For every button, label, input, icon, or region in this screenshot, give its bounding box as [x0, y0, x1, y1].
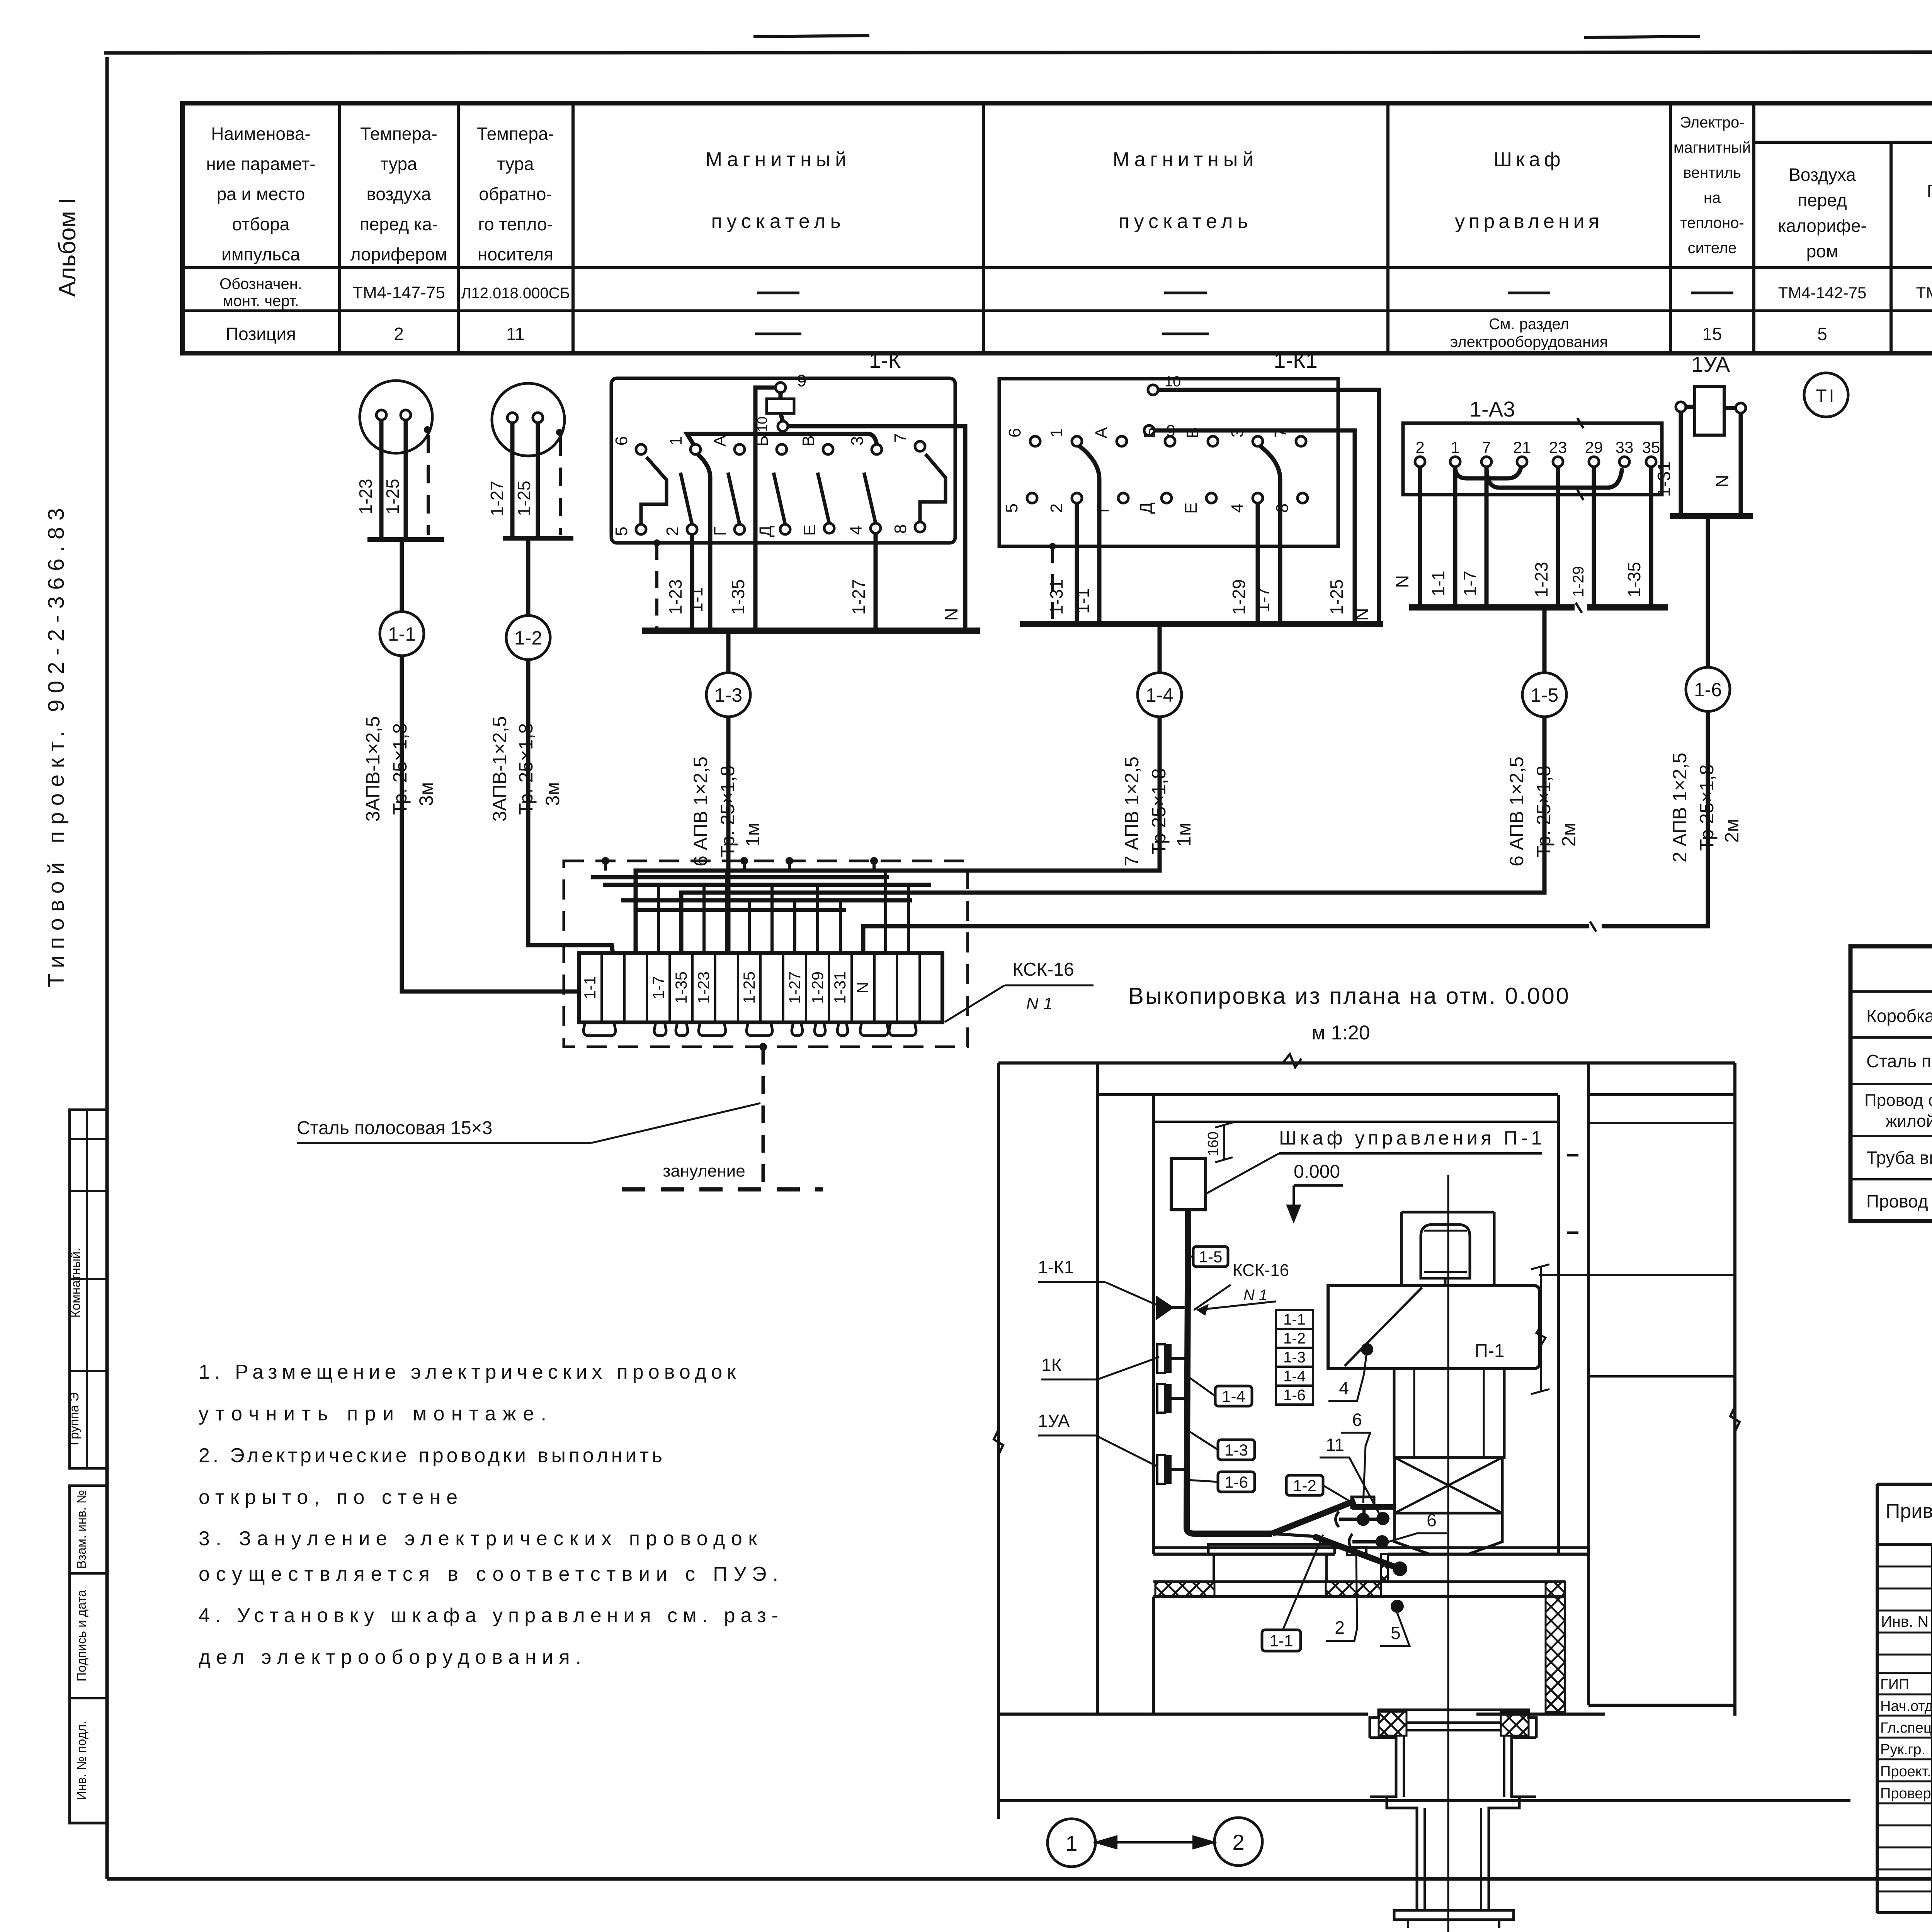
- svg-text:Темпера-: Темпера-: [360, 124, 437, 144]
- svg-text:Инв. № подл.: Инв. № подл.: [74, 1721, 88, 1800]
- lower valve: [1349, 1534, 1389, 1549]
- svg-text:электрооборудования: электрооборудования: [1450, 333, 1608, 350]
- svg-text:4: 4: [1339, 1378, 1349, 1398]
- svg-text:1-К1: 1-К1: [1274, 348, 1318, 372]
- jumper 1-21: [1455, 467, 1521, 478]
- wire terminal 10 to N drop: [788, 426, 965, 631]
- svg-text:Г: Г: [711, 527, 730, 536]
- svg-text:1-2: 1-2: [514, 627, 542, 649]
- terminals 7/8 of 1-К1: [1271, 428, 1308, 513]
- svg-text:Подпись и дата: Подпись и дата: [74, 1590, 88, 1682]
- svg-text:3: 3: [848, 436, 867, 446]
- fixture third (plan): [1157, 1344, 1187, 1373]
- svg-text:Тр. 25×1,8: Тр. 25×1,8: [1533, 765, 1554, 857]
- wire bundle drops: [613, 871, 908, 953]
- axis dimension arrows: [1095, 1836, 1214, 1849]
- svg-text:1-5: 1-5: [1531, 684, 1558, 706]
- leader from 4 to unit: [1364, 1349, 1367, 1374]
- svg-text:калорифе-: калорифе-: [1778, 216, 1867, 236]
- wire 1-25 label (sensor B2): [514, 481, 534, 516]
- contact 6-5 of 1-К: [612, 436, 667, 536]
- svg-text:3: 3: [1228, 428, 1247, 437]
- terminal 29 of 1-А3: [1585, 438, 1603, 467]
- cable 1-5 run: [681, 717, 1544, 953]
- svg-text:1-1: 1-1: [1283, 1311, 1306, 1328]
- svg-text:9: 9: [797, 371, 806, 390]
- wire bus to node 1-4: [1158, 624, 1162, 673]
- wire bundle horizontal runs: [402, 871, 1160, 992]
- svg-text:1: 1: [1065, 1831, 1077, 1855]
- svg-text:1: 1: [1451, 438, 1459, 456]
- svg-text:Альбом Ι: Альбом Ι: [54, 198, 81, 297]
- svg-text:N 1: N 1: [1026, 994, 1053, 1013]
- wire terminal 1 drop of 1-К1: [1079, 446, 1099, 624]
- terminal 1 of 1-А3: [1450, 438, 1460, 467]
- leader 1-5: [1187, 1256, 1193, 1258]
- svg-text:1-25: 1-25: [383, 479, 403, 514]
- axis marker 1: [1048, 1819, 1095, 1867]
- unit dimension bracket: [1531, 1264, 1549, 1394]
- leader 1-3: [1187, 1430, 1218, 1450]
- svg-text:1-1: 1-1: [1073, 588, 1093, 614]
- node 1-4: [1138, 673, 1182, 717]
- svg-text:ТМ4-143-75: ТМ4-143-75: [1916, 284, 1932, 302]
- svg-text:N: N: [941, 608, 961, 621]
- wire to node 1-2: [526, 538, 531, 616]
- sensor B2 (temperature bulb): [492, 383, 573, 538]
- wire 1-31 of 1УА: [1654, 412, 1681, 516]
- svg-text:2: 2: [1047, 503, 1066, 513]
- cable 1-1 run: [402, 656, 580, 992]
- svg-text:1-29: 1-29: [1229, 579, 1249, 615]
- svg-text:15: 15: [1702, 324, 1722, 344]
- svg-text:3. Зануление электрически: 3. Зануление электрических проводок: [199, 1527, 757, 1550]
- svg-text:носителя: носителя: [478, 244, 553, 264]
- marker box stack 1-1..1-6: [1276, 1310, 1313, 1405]
- wire bus to node 1-6: [1706, 516, 1710, 667]
- parameter table: [182, 103, 1932, 353]
- position flag 5: [1380, 1613, 1410, 1646]
- cable 1-4 run: [636, 717, 1160, 953]
- terminal 23 of 1-А3: [1549, 438, 1567, 467]
- svg-text:1-7: 1-7: [1253, 587, 1273, 612]
- svg-text:1-5: 1-5: [1199, 1248, 1223, 1266]
- jumper 7-33: [1486, 467, 1622, 488]
- svg-text:1-29: 1-29: [1570, 566, 1587, 597]
- terminal 2 of 1-А3: [1415, 438, 1425, 467]
- svg-text:2: 2: [1415, 438, 1424, 456]
- svg-text:тура: тура: [380, 154, 417, 174]
- plan hatching: [1155, 1554, 1565, 1712]
- marker box 1-6: [1218, 1472, 1255, 1492]
- svg-text:33: 33: [1616, 438, 1634, 456]
- svg-text:Тр 25×1,8: Тр 25×1,8: [1148, 768, 1170, 855]
- terminal 7 of 1-А3: [1481, 438, 1492, 467]
- drop labels of 1-А3: [1392, 562, 1644, 597]
- svg-text:Тр. 25×1,8: Тр. 25×1,8: [515, 723, 537, 815]
- svg-text:теплоно-: теплоно-: [1680, 214, 1744, 231]
- cable tray run: [1187, 1210, 1400, 1569]
- svg-text:ние парамет-: ние парамет-: [206, 154, 315, 174]
- wire terminal 9 to 1-25 drop: [1154, 430, 1355, 624]
- svg-text:Наименова-: Наименова-: [211, 124, 311, 144]
- svg-text:Проект.: Проект.: [1880, 1764, 1931, 1780]
- svg-text:1УА: 1УА: [1038, 1411, 1070, 1431]
- svg-text:ТМ4-147-75: ТМ4-147-75: [352, 283, 445, 302]
- level mark 0.000: [1287, 1162, 1343, 1221]
- svg-text:Комнатный.: Комнатный.: [68, 1248, 83, 1318]
- svg-text:11: 11: [506, 324, 525, 344]
- svg-text:Шкаф: Шкаф: [1493, 148, 1564, 171]
- svg-text:1-35: 1-35: [728, 579, 748, 615]
- svg-text:го тепло-: го тепло-: [478, 214, 553, 234]
- unit funnel: [1395, 1513, 1502, 1554]
- wire 1-23 label: [355, 479, 376, 514]
- bundle junction dots: [602, 857, 878, 871]
- unit П-1 body: [1328, 1286, 1540, 1369]
- terminals 1/2 of 1-К1: [1047, 428, 1082, 513]
- svg-text:2м: 2м: [1558, 823, 1580, 847]
- svg-text:29: 29: [1585, 438, 1603, 456]
- drop labels of 1-К: [665, 579, 961, 621]
- svg-text:2: 2: [663, 527, 682, 536]
- cable bus of 1-А3: [1409, 603, 1668, 613]
- svg-text:Б: Б: [1140, 427, 1159, 439]
- svg-text:1-6: 1-6: [1694, 679, 1722, 701]
- fan motor: [1421, 1175, 1470, 1278]
- cable 1-6 run: [863, 711, 1708, 953]
- cable 1-2 label: [489, 716, 563, 821]
- svg-text:пускатель: пускатель: [1118, 210, 1252, 233]
- terminals Б/Д of 1-К1: [1137, 427, 1175, 514]
- position flag 4: [1328, 1374, 1364, 1401]
- svg-text:11: 11: [1326, 1435, 1344, 1455]
- svg-text:1м: 1м: [742, 823, 764, 847]
- svg-text:N: N: [854, 982, 872, 993]
- svg-text:Провод с алюминиевой: Провод с алюминиевой: [1864, 1091, 1932, 1110]
- contact 3-4 of 1-К: [847, 436, 882, 535]
- svg-text:160: 160: [1205, 1131, 1221, 1156]
- svg-text:1-2: 1-2: [1283, 1330, 1306, 1347]
- title block attachment table: [1877, 1484, 1932, 1913]
- terminals 3/4 of 1-К1: [1228, 428, 1263, 513]
- valve sensor pocket 1-2: [1352, 1497, 1396, 1510]
- svg-text:Сталь полосовая: Сталь полосовая: [1866, 1051, 1932, 1071]
- svg-text:монт. черт.: монт. черт.: [223, 293, 299, 310]
- svg-text:6: 6: [1005, 428, 1024, 437]
- svg-text:импульса: импульса: [221, 244, 300, 264]
- svg-text:1УА: 1УА: [1691, 352, 1730, 376]
- terminals В/Е of 1-К1: [1182, 427, 1218, 514]
- svg-text:тура: тура: [497, 154, 534, 174]
- svg-text:магнитный: магнитный: [1673, 139, 1751, 156]
- svg-text:1-23: 1-23: [1531, 562, 1551, 597]
- contact 1-2 of 1-К: [663, 436, 701, 536]
- svg-text:П-1: П-1: [1475, 1341, 1504, 1361]
- svg-text:Гл.спец.: Гл.спец.: [1880, 1720, 1932, 1736]
- svg-text:Провод стальной ф 5мм: Провод стальной ф 5мм: [1866, 1191, 1932, 1211]
- fixture 1УА (plan): [1157, 1455, 1187, 1484]
- wire terminal 1 drop 1-1: [698, 454, 710, 631]
- svg-text:Воздуха: Воздуха: [1789, 165, 1856, 185]
- svg-text:обратно-: обратно-: [479, 184, 552, 204]
- leader 1-1 (plan): [1283, 1535, 1323, 1630]
- leader 1-6: [1187, 1480, 1218, 1482]
- svg-text:Взам. инв. №: Взам. инв. №: [74, 1490, 88, 1569]
- wire 1-29 drop of 1-А3: [1592, 467, 1596, 607]
- svg-text:уточнить при монтаже.: уточнить при монтаже.: [199, 1403, 546, 1425]
- svg-text:ТМ4-142-75: ТМ4-142-75: [1778, 284, 1867, 302]
- wire bus to node 1-5: [1543, 607, 1547, 673]
- svg-text:1: 1: [667, 436, 685, 446]
- svg-text:1-29: 1-29: [808, 971, 827, 1004]
- svg-text:3м: 3м: [542, 782, 563, 806]
- svg-text:Е: Е: [800, 524, 819, 536]
- svg-text:перед ка-: перед ка-: [360, 214, 438, 234]
- svg-text:А: А: [711, 435, 730, 447]
- terminals А/Г of 1-К1: [1092, 427, 1128, 513]
- svg-text:1-1: 1-1: [686, 587, 706, 612]
- node 1-6: [1686, 667, 1730, 711]
- contactor 1-К body: [611, 378, 955, 543]
- wire terminal 4 drop 1-27: [874, 533, 878, 631]
- svg-text:вентиль: вентиль: [1683, 164, 1741, 181]
- svg-text:7: 7: [1271, 428, 1290, 437]
- leader to cable 1-1..1-6 stack: [1198, 1301, 1276, 1315]
- svg-text:зануление: зануление: [663, 1162, 745, 1180]
- svg-text:1-6: 1-6: [1225, 1473, 1248, 1491]
- node 1-5: [1522, 673, 1566, 717]
- wire terminal 9 to 1-35 drop: [755, 388, 776, 631]
- svg-text:1-31: 1-31: [1654, 461, 1674, 497]
- svg-text:1-23: 1-23: [665, 579, 685, 615]
- svg-text:8: 8: [891, 524, 910, 534]
- cable 1-2 run: [528, 660, 613, 953]
- svg-text:А: А: [1092, 427, 1111, 439]
- svg-text:1-23: 1-23: [355, 479, 376, 514]
- svg-text:1-23: 1-23: [694, 971, 713, 1004]
- wire 1-27 label: [487, 481, 507, 516]
- svg-text:отбора: отбора: [232, 214, 290, 234]
- svg-text:Рук.гр.: Рук.гр.: [1880, 1742, 1925, 1758]
- svg-text:0.000: 0.000: [1294, 1162, 1340, 1182]
- terminal box 1-А3 body: [1403, 418, 1662, 500]
- drop labels of 1-К1: [1046, 579, 1372, 621]
- cable bus of 1-К: [642, 628, 980, 634]
- terminal 10 of 1-К1: [1148, 374, 1181, 395]
- svg-text:1м: 1м: [1173, 823, 1195, 847]
- wire N of 1УА: [1712, 413, 1741, 516]
- wire 1-1 drop of 1-А3: [1453, 467, 1458, 607]
- wire 1-25 label (sensor B1): [383, 479, 403, 514]
- svg-text:на: на: [1704, 189, 1721, 206]
- svg-text:6: 6: [612, 436, 631, 446]
- dimension 160: [1205, 1122, 1233, 1162]
- wire terminal 10 to N drop: [1158, 390, 1379, 624]
- svg-text:1-1: 1-1: [581, 976, 599, 1000]
- position flag 6 lower: [1389, 1510, 1447, 1542]
- svg-text:1: 1: [1047, 428, 1066, 437]
- svg-text:Тр. 25×1,8: Тр. 25×1,8: [717, 765, 738, 857]
- svg-text:Темпера-: Темпера-: [477, 124, 554, 144]
- callout КСК-16 N1 (plan): [1194, 1261, 1289, 1310]
- leader 1-2: [1323, 1485, 1352, 1502]
- materials table: [1850, 946, 1932, 1221]
- contactor 1-К1 body: [999, 379, 1338, 546]
- svg-text:1-7: 1-7: [1460, 571, 1480, 596]
- cable 1-3 label: [690, 757, 764, 866]
- label зануление: [663, 1162, 745, 1180]
- svg-text:Привязан:: Привязан:: [1886, 1500, 1932, 1522]
- svg-text:N 1: N 1: [1243, 1287, 1267, 1304]
- svg-text:6 АПВ 1×2,5: 6 АПВ 1×2,5: [1506, 757, 1527, 866]
- svg-text:открыто, по стене: открыто, по стене: [199, 1486, 457, 1509]
- node 1-1: [380, 612, 424, 656]
- svg-text:1-25: 1-25: [740, 971, 758, 1004]
- svg-text:35: 35: [1642, 438, 1660, 456]
- floor slab: [1208, 1544, 1335, 1582]
- svg-text:7: 7: [891, 433, 910, 442]
- КСК-16 callout: [945, 959, 1094, 1022]
- svg-text:Е: Е: [1182, 502, 1201, 514]
- svg-text:ТΙ: ТΙ: [1816, 386, 1837, 406]
- svg-text:6: 6: [1352, 1410, 1362, 1430]
- svg-text:КСК-16: КСК-16: [1233, 1261, 1289, 1280]
- terminal 9 of 1-К1: [1144, 422, 1175, 440]
- terminal 35 of 1-А3: [1642, 438, 1660, 467]
- position flag 6 upper: [1341, 1410, 1370, 1503]
- svg-text:Д: Д: [1137, 502, 1156, 514]
- cable 1-6 label: [1669, 753, 1743, 862]
- svg-text:1-25: 1-25: [514, 481, 534, 516]
- svg-text:21: 21: [1513, 438, 1531, 456]
- svg-text:1-35: 1-35: [1624, 562, 1644, 597]
- svg-text:1-27: 1-27: [786, 971, 804, 1004]
- svg-text:1-7: 1-7: [649, 976, 667, 1000]
- motor frame: [1401, 1212, 1494, 1286]
- svg-text:1-1: 1-1: [1270, 1632, 1293, 1650]
- marker box 1-4: [1215, 1386, 1252, 1406]
- cable 1-3 run: [726, 717, 731, 953]
- wire terminal 1 to bus (link to contact 3): [687, 434, 877, 445]
- node 1-2: [506, 616, 550, 660]
- svg-text:Магнитный: Магнитный: [1113, 148, 1259, 171]
- svg-text:Сталь полосовая 15×3: Сталь полосовая 15×3: [297, 1118, 492, 1138]
- notes text: [199, 1361, 778, 1668]
- marker box 1-3: [1218, 1440, 1255, 1460]
- svg-text:3АПВ-1×2,5: 3АПВ-1×2,5: [489, 716, 510, 821]
- svg-text:1-31: 1-31: [1046, 579, 1066, 615]
- svg-text:перед: перед: [1798, 190, 1847, 210]
- cable 1-4 label: [1121, 757, 1195, 866]
- marker box 1-1: [1262, 1630, 1301, 1651]
- wire N drop of 1-А3: [1418, 467, 1422, 607]
- svg-text:Группа Э: Группа Э: [67, 1392, 81, 1445]
- label сталь полосовая: [297, 1103, 760, 1143]
- svg-text:ром: ром: [1806, 241, 1838, 261]
- svg-text:1-2: 1-2: [1293, 1476, 1316, 1495]
- svg-text:5: 5: [1817, 324, 1827, 344]
- junction box КСК-16 body: [579, 953, 942, 1022]
- svg-text:м 1:20: м 1:20: [1311, 1022, 1370, 1044]
- svg-text:5: 5: [612, 527, 631, 536]
- wire terminal 4 drop of 1-К1: [1256, 503, 1260, 624]
- wire to node 1-1: [400, 539, 404, 612]
- contactor 1-К label: [869, 348, 901, 372]
- svg-text:1-А3: 1-А3: [1469, 397, 1515, 421]
- grounding conductor: [759, 1043, 767, 1188]
- terminal 33 of 1-А3: [1616, 438, 1634, 467]
- instrument TI-1: [1804, 373, 1848, 417]
- wire terminal 2 drop 1-23: [690, 534, 694, 631]
- leader 1-4: [1187, 1376, 1215, 1396]
- unit pedestal: [1394, 1369, 1504, 1458]
- contactor 1-К1 label: [1274, 348, 1318, 372]
- svg-text:2: 2: [1232, 1830, 1244, 1854]
- position flag 11: [1320, 1435, 1382, 1519]
- svg-text:1-25: 1-25: [1327, 579, 1347, 615]
- dot 5: [1391, 1600, 1404, 1613]
- wire 1-7 drop of 1-А3: [1485, 467, 1489, 607]
- relay coil of 1-К (terminals 9,10): [754, 371, 806, 432]
- svg-text:ГИП: ГИП: [1880, 1677, 1909, 1693]
- solenoid valve 1УА label: [1691, 352, 1730, 376]
- svg-text:5: 5: [1002, 503, 1021, 513]
- wire bus to node 1-3: [726, 631, 731, 673]
- end dot of cable: [1393, 1561, 1407, 1576]
- svg-text:N: N: [1352, 608, 1372, 621]
- svg-text:Позиция: Позиция: [226, 324, 296, 344]
- svg-text:1-4: 1-4: [1146, 684, 1173, 706]
- svg-text:2 АПВ 1×2,5: 2 АПВ 1×2,5: [1669, 753, 1690, 862]
- fixture 1К (plan): [1157, 1384, 1187, 1413]
- svg-text:10: 10: [1165, 374, 1181, 390]
- svg-text:Труба винипластовая: Труба винипластовая: [1866, 1148, 1932, 1168]
- svg-text:пускатель: пускатель: [711, 210, 845, 233]
- svg-text:Электро-: Электро-: [1680, 114, 1744, 131]
- svg-text:2: 2: [1335, 1617, 1345, 1638]
- svg-text:1-К: 1-К: [869, 348, 901, 372]
- plan title: [1128, 983, 1569, 1009]
- svg-text:23: 23: [1549, 438, 1567, 456]
- upper valve: [1336, 1508, 1390, 1527]
- pocket below: [1347, 1547, 1366, 1555]
- svg-text:Тр. 25×1,8: Тр. 25×1,8: [389, 723, 411, 815]
- cable bus of 1УА: [1670, 513, 1753, 519]
- unit brace section: [1395, 1458, 1502, 1513]
- contact В-Е of 1-К: [799, 435, 834, 536]
- svg-text:N: N: [1392, 575, 1412, 588]
- svg-text:ра и место: ра и место: [217, 184, 305, 204]
- svg-text:1-К1: 1-К1: [1038, 1257, 1074, 1277]
- drain pipe section: [1370, 1175, 1536, 1932]
- svg-text:7 АПВ 1×2,5: 7 АПВ 1×2,5: [1121, 757, 1143, 866]
- callout 1-К1: [1038, 1257, 1159, 1306]
- contact А-Г of 1-К: [711, 435, 745, 536]
- svg-text:Магнитный: Магнитный: [706, 148, 851, 171]
- dashed spare drop of 1-К: [653, 539, 660, 631]
- svg-text:1-4: 1-4: [1283, 1368, 1306, 1385]
- svg-text:3АПВ-1×2,5: 3АПВ-1×2,5: [362, 716, 384, 821]
- svg-text:Тр 25×1,8: Тр 25×1,8: [1696, 764, 1718, 851]
- svg-text:1-3: 1-3: [714, 684, 742, 706]
- margin stamp boxes: [67, 1110, 107, 1823]
- svg-text:Д: Д: [756, 526, 775, 537]
- fixture 1-К1 (plan): [1157, 1298, 1187, 1318]
- junction box КСК-16 dashed enclosure: [564, 861, 968, 1047]
- wire terminal 2 drop of 1-К1: [1075, 503, 1079, 624]
- svg-text:1-27: 1-27: [849, 579, 869, 615]
